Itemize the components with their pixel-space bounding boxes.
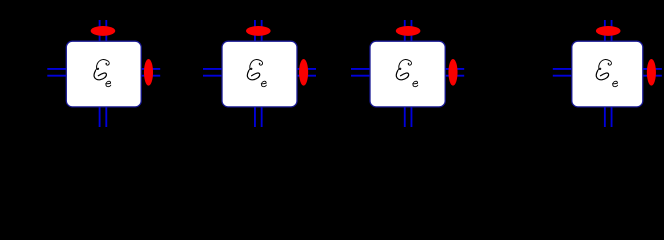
label subscript e, box 3 (413, 81, 418, 86)
channel box E_e #3 (370, 41, 445, 107)
channel box E_e #2 (222, 41, 297, 107)
channel box E_e #1 (66, 41, 141, 107)
channel box E_e #4 (572, 41, 643, 107)
noise ellipse right, box 4 (647, 59, 656, 86)
wire: bottom pair, box 2 (255, 106, 262, 127)
wire: left input pair, box 4 (553, 69, 572, 76)
label script-E, box 2 (247, 60, 262, 80)
wire: top pair, box 2 (255, 20, 262, 42)
noise ellipse top, box 3 (396, 26, 421, 36)
wire: top pair, box 3 (405, 20, 412, 42)
wire: left input pair, box 2 (203, 69, 222, 76)
wire: bottom pair, box 4 (605, 106, 612, 127)
label subscript e, box 1 (106, 81, 111, 86)
wire: top pair, box 4 (605, 20, 612, 42)
wire: right output pair, box 1 (141, 69, 160, 76)
label subscript e, box 2 (261, 81, 266, 86)
wire: left input pair, box 1 (47, 69, 66, 76)
label script-E, box 4 (596, 60, 611, 80)
label subscript e, box 4 (613, 81, 618, 86)
wire: top pair, box 1 (100, 20, 107, 42)
wire: bottom pair, box 3 (405, 106, 412, 127)
wire: bottom pair, box 1 (100, 106, 107, 127)
noise ellipse top, box 1 (91, 26, 116, 36)
label script-E, box 1 (94, 60, 109, 80)
wire: right output pair, box 4 (643, 69, 662, 76)
noise ellipse top, box 4 (596, 26, 621, 36)
label script-E, box 3 (396, 60, 411, 80)
wire: left input pair, box 3 (351, 69, 370, 76)
noise ellipse right, box 2 (299, 59, 308, 86)
noise ellipse right, box 3 (448, 59, 457, 86)
noise ellipse right, box 1 (144, 59, 153, 86)
wire: right output pair, box 3 (445, 69, 464, 76)
wire: right output pair, box 2 (297, 69, 316, 76)
noise ellipse top, box 2 (246, 26, 271, 36)
